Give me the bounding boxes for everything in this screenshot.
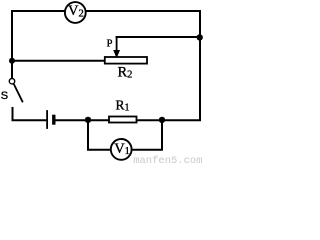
svg-text:manfen5.com: manfen5.com [133,155,202,165]
svg-text:P: P [107,39,113,50]
svg-text:S: S [1,90,8,102]
